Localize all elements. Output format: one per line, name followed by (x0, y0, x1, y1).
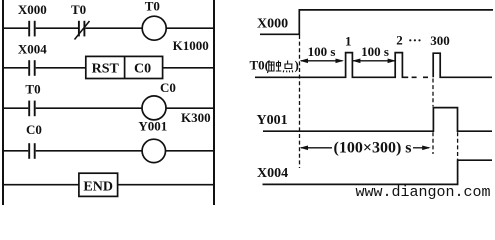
svg-text:X004: X004 (257, 166, 288, 181)
svg-text:(100×300) s: (100×300) s (334, 140, 412, 157)
svg-text:K300: K300 (181, 110, 211, 125)
wire (85, 27, 142, 29)
svg-text:C0: C0 (134, 62, 151, 77)
svg-text:): ) (295, 58, 299, 73)
dashed reference line at X000 rising edge (299, 35, 301, 168)
svg-text:C0: C0 (26, 122, 42, 137)
wire (36, 107, 143, 109)
dashed reference line at pulse 300 (432, 79, 434, 155)
wire (36, 27, 78, 29)
svg-text:300: 300 (430, 33, 450, 48)
wire rung5 right (118, 184, 214, 186)
svg-text:100 s: 100 s (308, 44, 336, 59)
pulse 300 and trailing baseline (433, 53, 492, 77)
svg-text:X000: X000 (18, 2, 47, 17)
contact X004 (18, 42, 47, 76)
wire rung1 right (166, 27, 214, 29)
dashed reference line at Y001 falling edge (457, 132, 459, 159)
svg-text:X000: X000 (257, 16, 288, 31)
wire rung2 left (3, 67, 28, 69)
svg-text:C0: C0 (160, 80, 176, 95)
svg-text:T0: T0 (145, 0, 160, 14)
wire rung4 left (3, 150, 28, 152)
dimension arrow 100s first (300, 59, 344, 64)
waveform Y001 (263, 108, 492, 132)
svg-text:Y001: Y001 (138, 119, 167, 134)
coil Y001 (138, 119, 167, 163)
contact C0 (26, 122, 42, 159)
END box (79, 173, 118, 196)
wire rung1 left (3, 27, 28, 29)
contact T0 (normally closed) (71, 2, 89, 40)
right power rail (213, 0, 215, 205)
coil T0 (142, 0, 166, 40)
CJK char dian (point) (283, 61, 293, 73)
svg-text:T0(: T0( (250, 58, 270, 73)
contact T0 (25, 82, 40, 117)
dashed baseline segment (412, 76, 428, 78)
dimension arrow (100x300) s (300, 146, 431, 151)
wire rung3 left (3, 107, 28, 109)
wire rung5 left (3, 184, 79, 186)
CJK char chu (touch) (267, 61, 281, 74)
svg-text:1: 1 (345, 34, 352, 49)
dimension arrow 100s second (352, 59, 396, 64)
coil C0 (142, 80, 176, 120)
ellipsis dots (409, 39, 420, 41)
svg-text:K1000: K1000 (173, 38, 209, 53)
wire rung3 right (166, 107, 214, 109)
svg-text:T0: T0 (71, 2, 86, 17)
svg-text:2: 2 (396, 33, 403, 48)
svg-text:END: END (83, 179, 113, 194)
contact X000 (18, 2, 47, 36)
wire (36, 150, 143, 152)
left power rail (2, 0, 4, 205)
wire rung2 right (163, 67, 214, 69)
wire rung4 right (165, 150, 214, 152)
waveform T0 pulses (255, 53, 408, 78)
wire (36, 67, 86, 69)
svg-text:100 s: 100 s (361, 44, 389, 59)
waveform X004 (263, 160, 493, 184)
svg-text:www.diangon.com: www.diangon.com (356, 184, 491, 201)
instruction box RST C0 (86, 56, 163, 78)
node label T0(contact) (250, 58, 299, 73)
svg-text:RST: RST (92, 62, 120, 77)
svg-text:X004: X004 (18, 42, 47, 57)
waveform X000 (260, 10, 493, 34)
svg-text:Y001: Y001 (257, 113, 288, 128)
svg-text:T0: T0 (25, 82, 40, 97)
